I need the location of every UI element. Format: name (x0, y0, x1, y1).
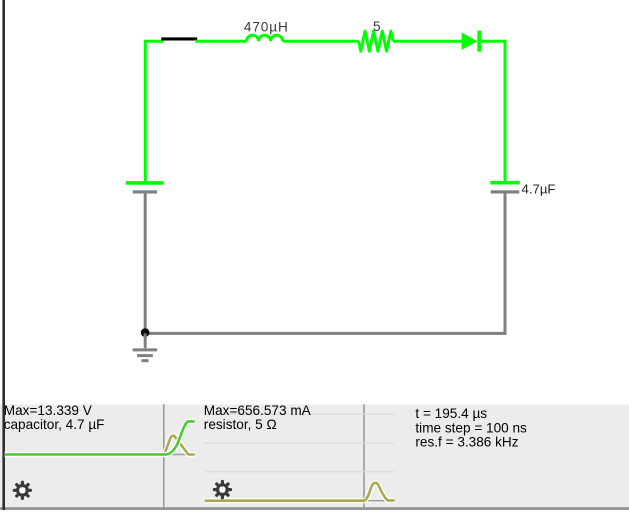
wire bottom horizontal (144, 332, 507, 335)
info text line 1 (415, 406, 487, 421)
node junction dot (141, 328, 150, 337)
scope 2 horizontal gridline 2 (205, 443, 395, 444)
ground bar 1 (133, 348, 158, 351)
scope 2 horizontal gridline 3 (205, 471, 395, 472)
scope 2 horizontal gridline 1 (205, 414, 395, 415)
scope 1 label line 1 (4, 403, 92, 418)
ground bar 2 (137, 354, 153, 357)
ground bar 3 (142, 359, 149, 362)
scope 2 zero axis (205, 500, 395, 502)
scope 1 vertical gridline (163, 404, 164, 507)
svg-text:t = 195.4 µs: t = 195.4 µs (415, 406, 487, 421)
svg-text:res.f = 3.386 kHz: res.f = 3.386 kHz (415, 435, 518, 450)
label 4.7µF (522, 182, 556, 197)
wire right vertical (504, 40, 507, 182)
svg-text:Max=656.573 mA: Max=656.573 mA (204, 403, 312, 418)
wire diode to top-right corner (481, 40, 506, 43)
switch S1 (closed) (161, 37, 197, 40)
svg-text:time step = 100 ns: time step = 100 ns (415, 420, 527, 435)
svg-text:capacitor, 4.7 µF: capacitor, 4.7 µF (4, 417, 105, 432)
scope 1 zero axis (5, 454, 195, 456)
bottom border (0, 507, 629, 510)
wire V1 negative lead (144, 193, 147, 335)
scope strip background (0, 404, 629, 507)
wire inductor to resistor (283, 40, 359, 43)
wire left vertical (144, 40, 147, 182)
scope 2 vertical gridline (363, 404, 364, 507)
scope 1 label line 2 (4, 417, 105, 432)
svg-text:5: 5 (373, 19, 381, 34)
wire top-left corner to switch (144, 40, 164, 43)
svg-text:470µH: 470µH (244, 20, 289, 35)
resistor R1 (359, 31, 393, 51)
label 5 (373, 19, 381, 34)
svg-text:resistor, 5 Ω: resistor, 5 Ω (204, 417, 277, 432)
voltage source V1 positive plate (126, 181, 164, 185)
scope 2 current trace (resistor current) (205, 483, 395, 501)
label 470µH (244, 20, 289, 35)
info text line 3 (415, 435, 518, 450)
diode D1 cathode bar (477, 31, 481, 52)
wire switch to inductor (195, 40, 246, 43)
capacitor C1 bottom plate (491, 190, 520, 193)
left border (2, 0, 5, 510)
inductor L1 (247, 35, 283, 41)
capacitor C1 top plate (490, 181, 519, 185)
scope 1 settings gear (14, 482, 30, 498)
svg-text:Max=13.339 V: Max=13.339 V (4, 403, 92, 418)
wire C1 bottom lead (504, 193, 507, 335)
scope 2 settings gear (214, 482, 230, 498)
diode D1 triangle (462, 33, 478, 50)
info text line 2 (415, 420, 527, 435)
scope 2 label line 2 (204, 417, 277, 432)
scope 1 current trace (capacitor current) (5, 436, 195, 455)
wire resistor to diode (393, 40, 462, 43)
voltage source V1 negative plate (133, 190, 157, 193)
scope 2 label line 1 (204, 403, 312, 418)
svg-text:4.7µF: 4.7µF (522, 182, 556, 197)
scope 1 voltage trace (capacitor voltage) (5, 421, 195, 454)
ground stem (144, 333, 147, 348)
